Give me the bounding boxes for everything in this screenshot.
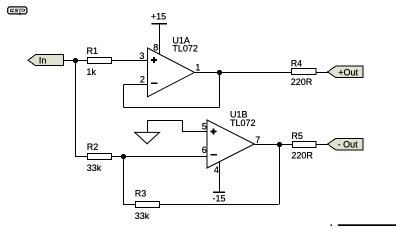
power -15 supply [213,191,226,203]
wire U1A output to R4 [195,72,292,74]
svg-text:1k: 1k [87,67,97,77]
op-amp U1B [207,110,256,168]
svg-text:5: 5 [202,121,207,131]
node U1A output junction dot [217,70,222,75]
power +15 supply [151,12,167,25]
wire U1A feedback right vertical up to output [219,73,221,108]
svg-text:+Out: +Out [338,67,358,77]
svg-text:2: 2 [140,75,145,85]
svg-text:33k: 33k [87,163,102,173]
wire +15 supply down to U1A pin 8 [159,24,161,55]
svg-text:220R: 220R [291,77,313,87]
wire U1B pin 4 down to -15 supply [219,162,221,192]
wire U1A pin 2 [124,84,148,86]
connector tag In [28,55,63,66]
node R2 output junction dot [121,154,126,159]
resistor R5 [291,131,316,148]
svg-text:8: 8 [153,42,158,52]
svg-text:R4: R4 [291,58,303,68]
ESP logo [8,7,27,15]
resistor R3 [135,188,160,207]
wire R2 to U1B pin 6 [112,156,208,158]
wire R5 to -Out tag [316,144,328,146]
wire ground to U1B pin 5 step [148,121,208,133]
ground [135,132,160,143]
wire R2 output node down to R3 [124,157,136,205]
wire input node down to R2 row [76,61,89,157]
svg-text:In: In [39,56,47,66]
svg-text:1: 1 [195,63,200,73]
svg-text:TL072: TL072 [172,43,198,53]
wire R3 to U1B feedback [160,204,279,206]
svg-text:-15: -15 [213,194,226,204]
svg-text:7: 7 [255,135,260,145]
svg-text:R1: R1 [87,46,99,56]
node U1B output junction dot [277,142,282,147]
connector tag +Out [328,66,363,78]
connector tag -Out [328,138,363,150]
resistor R2 [87,142,112,160]
bottom border fragment [331,224,396,226]
svg-text:6: 6 [202,145,207,155]
resistor R1 [87,46,112,64]
svg-text:4: 4 [214,165,219,175]
svg-text:- Out: - Out [338,140,359,150]
wire R1 to U1A pin 3 [112,60,148,62]
wire U1B output to R5 [254,144,292,146]
wire In tag to R1 [64,60,89,62]
node input junction dot [73,58,78,63]
op-amp U1A [148,35,198,97]
svg-text:33k: 33k [135,211,150,221]
wire U1A feedback bottom [124,107,220,109]
wire U1B feedback vertical up to output [279,145,281,205]
svg-text:R2: R2 [87,142,99,152]
svg-text:TL072: TL072 [230,118,256,128]
wire U1A feedback left vertical [123,85,125,108]
wire R4 to +Out tag [316,72,328,74]
svg-text:+15: +15 [151,12,166,22]
svg-text:3: 3 [139,51,144,61]
resistor R4 [291,58,316,74]
svg-text:R3: R3 [135,188,147,198]
svg-text:220R: 220R [291,151,313,161]
svg-text:R5: R5 [291,131,303,141]
